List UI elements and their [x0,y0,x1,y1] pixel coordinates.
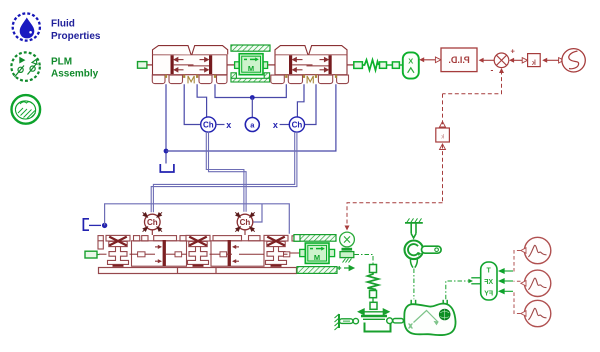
valve bottom tabs [152,75,348,84]
valve bottom plate [99,268,297,274]
svg-text:Fluid: Fluid [51,19,75,30]
PID block [441,48,477,72]
blob chevron [409,311,438,331]
svg-text:Ch: Ch [203,121,214,130]
gain k block [528,54,541,67]
feedback dashed wire [347,71,502,226]
sine source [562,49,585,72]
rod right [393,319,404,323]
spool section B [211,240,264,266]
svg-text:P.I.D.: P.I.D. [448,55,469,65]
poppet M glyph left [188,76,194,83]
spring mass chain [368,265,379,310]
svg-text:M: M [248,64,254,73]
motor M block lower [300,243,335,263]
blob globe [439,309,450,320]
valve left wall [98,241,103,249]
damper bracket [365,323,391,332]
valve left port (green) [138,62,147,69]
crank arm [422,246,442,253]
spool section A [132,240,187,266]
hatched bar top [294,235,336,242]
arrows left section [174,58,208,72]
rotary joint [405,241,424,260]
signal source 2 [521,270,551,296]
wire bracket to junction [89,224,101,226]
double wire Ch-right to lower left chamber [153,132,294,212]
valve supply port green [85,251,97,258]
valve port ticks [165,75,337,78]
svg-text:PLM: PLM [51,56,72,67]
orange cam icon [11,95,40,124]
spool land 3 [289,55,292,74]
hatched top bar [231,45,270,51]
valve left body [153,55,228,75]
wire body to motor [227,64,235,66]
PLM assembly icon [11,52,39,80]
svg-text:T: T [487,267,492,274]
junction dot tank line [164,149,169,154]
servo actuator block X^ [403,52,419,78]
pin joint left [353,318,358,323]
gain k2 block [440,122,446,128]
cam blob [404,304,455,335]
wire tab6 to Ch right top [297,84,304,117]
signal sink bracket [83,219,89,230]
blob prongs [411,300,447,305]
poppet assembly 3 [264,235,288,266]
anchor wall [335,314,340,330]
hatched frame bottom bar [231,78,270,82]
cap 4 [309,46,347,55]
dash link blob to function block [446,281,471,299]
spool stems right [292,64,312,66]
wire port to body [147,64,153,66]
damper box C [392,62,399,68]
crank clamp [405,218,423,223]
sum junction [494,53,509,68]
svg-text:M: M [314,253,320,262]
branch to lower Ch right port [253,204,262,222]
junction dot bracket [102,223,107,228]
accel sensor a [245,118,259,132]
chamber sensor Ch lower-right [235,212,254,235]
svg-text:XF: XF [484,279,494,286]
spool stems left [174,64,194,66]
svg-text:FY: FY [484,291,493,298]
dashed wire source 3 [514,291,521,313]
valve right body [275,55,347,75]
chamber sensor Ch lower-left [143,212,162,235]
wire long right at y151 [166,84,336,151]
pin joint right [387,318,393,324]
x stub left [216,124,225,126]
wire tab3 to Ch top [197,84,207,117]
svg-text:Ch: Ch [147,218,158,227]
motor M block top [235,54,268,75]
function block right port arrows [499,269,513,294]
hatched frame bottom columns [231,73,236,82]
svg-text:x: x [226,120,231,130]
dashed wire source 2 [514,280,521,282]
rod left [340,319,353,324]
junction dot a-sensor [250,95,255,100]
spring [362,60,378,70]
fluid properties icon [13,13,40,40]
poppet M glyph right [307,76,313,83]
function block left stubs [471,277,480,279]
svg-text:+: + [511,47,516,56]
crank post [411,223,416,238]
displacement arrow [337,266,354,271]
cap 1 [153,46,192,55]
poppet assembly 1 [106,235,130,266]
pressure sensor Ch right [289,117,304,132]
wire PID to actuator [422,59,442,61]
svg-text:x: x [409,323,413,330]
svg-text:-: - [491,65,494,75]
damper box A [354,62,363,69]
cap 3 [275,46,308,55]
valve axis lines [99,253,300,254]
link [387,64,393,66]
hatched bar bottom [297,267,337,274]
double wire Ch-left to lower right chamber [206,132,244,212]
svg-text:x: x [273,120,278,130]
svg-text:Ch: Ch [292,121,303,130]
spool land 4 [329,55,332,74]
cap 2 [192,46,228,55]
valve top port rects [98,236,297,241]
wire tab1 to tank junction [165,84,167,163]
wire tab2 to Ch left side [184,84,201,124]
pressure sensor Ch left [201,117,216,132]
svg-text:Properties: Properties [51,31,101,42]
svg-text:Assembly: Assembly [51,69,99,80]
wire sine to k [545,59,560,61]
svg-text:Ch: Ch [240,218,251,227]
arrows right section [293,58,328,72]
damper box B [380,62,387,68]
spool land 1 [171,55,174,74]
dash link crank to blob [413,269,415,300]
tank symbol [160,164,174,172]
valve axis connector blocks [138,252,290,257]
bracket wire with a-sensor tap [215,84,286,97]
wire tab7 to Ch right side [305,84,316,124]
dashed wire source 1 [514,251,521,272]
displacement sensor X [340,232,355,262]
svg-text:X: X [408,56,413,65]
signal source 3 [521,300,551,326]
signal source 1 [521,237,551,263]
valve right port [347,64,354,66]
spool land 2 [209,55,212,74]
poppet assembly 2 [186,235,210,266]
wire sum to PID [481,59,494,61]
wire k to sum [512,59,523,61]
crank fork [410,259,417,267]
damper double arrow [359,309,389,314]
slate wire bracket up over to valve [105,204,290,234]
damper plates [361,315,387,317]
dash link sensor to spring-mass [355,255,374,265]
